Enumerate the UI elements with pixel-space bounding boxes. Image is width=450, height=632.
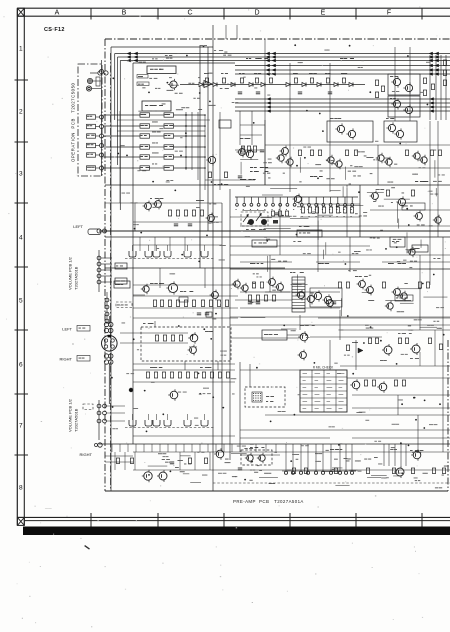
svg-text:VOLUME PCB 1/2: VOLUME PCB 1/2 [68,398,73,432]
svg-text:2: 2 [19,109,23,116]
svg-text:____: ____ [44,505,52,509]
svg-text:7: 7 [19,423,23,430]
svg-text:D: D [254,10,259,17]
svg-text:3: 3 [19,171,23,178]
svg-text:OPERATION PCB T2027C5050: OPERATION PCB T2027C5050 [71,82,76,162]
svg-text:RIGHT: RIGHT [80,452,93,457]
svg-text:4: 4 [19,235,23,242]
svg-text:B: B [122,10,127,17]
svg-text:5: 5 [19,298,23,305]
svg-text:C: C [187,10,192,17]
svg-text:VOLUME PCB 1/2: VOLUME PCB 1/2 [68,256,73,290]
svg-text:E: E [321,10,326,17]
svg-text:F: F [387,10,391,17]
svg-text:1: 1 [19,46,23,53]
svg-text:LEFT: LEFT [73,224,83,229]
svg-text:PRE-AMP PCB T2027A501A: PRE-AMP PCB T2027A501A [233,499,304,504]
svg-text:CS·F12: CS·F12 [44,27,65,33]
svg-text:RIGHT: RIGHT [60,357,73,362]
svg-text:T2027A501B: T2027A501B [74,266,79,290]
svg-text:8: 8 [19,485,23,492]
svg-text:○: ○ [72,342,74,346]
svg-text:T2027A501B: T2027A501B [74,408,79,432]
svg-text:A: A [55,10,60,17]
svg-text:LEFT: LEFT [62,327,72,332]
svg-text:6: 6 [19,362,23,369]
svg-text:R MIL CHECK: R MIL CHECK [313,366,334,370]
